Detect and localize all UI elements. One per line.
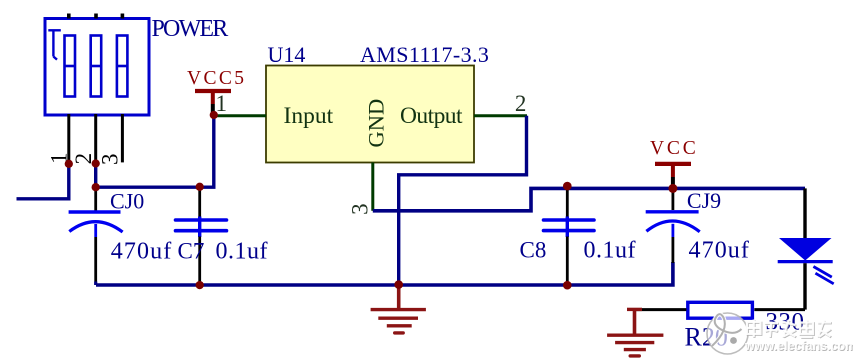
svg-text:C7: C7 — [178, 239, 205, 264]
svg-text:1: 1 — [216, 91, 228, 116]
svg-text:0.1uf: 0.1uf — [216, 239, 269, 265]
svg-text:0.1uf: 0.1uf — [584, 238, 637, 264]
svg-text:VCC5: VCC5 — [187, 68, 246, 89]
svg-text:CJ9: CJ9 — [687, 188, 721, 213]
svg-text:AMS1117-3.3: AMS1117-3.3 — [360, 42, 489, 67]
svg-text:Input: Input — [284, 103, 334, 129]
svg-text:VCC: VCC — [650, 138, 699, 159]
svg-text:Output: Output — [400, 103, 463, 129]
svg-text:2: 2 — [515, 91, 527, 116]
svg-text:470uf: 470uf — [689, 238, 751, 264]
svg-text:POWER: POWER — [152, 16, 229, 42]
svg-text:470uf: 470uf — [111, 239, 173, 265]
svg-text:GND: GND — [364, 99, 389, 148]
svg-text:CJ0: CJ0 — [110, 188, 144, 213]
svg-text:3: 3 — [348, 203, 373, 215]
svg-text:3: 3 — [98, 154, 123, 166]
svg-text:C8: C8 — [520, 238, 547, 263]
svg-text:U14: U14 — [268, 42, 306, 67]
svg-text:www.elecfans.com: www.elecfans.com — [744, 339, 853, 353]
